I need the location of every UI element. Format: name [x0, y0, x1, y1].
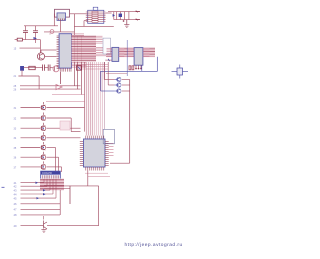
- MCU U2 left pins: [80, 141, 84, 165]
- wire below MCU: [85, 173, 110, 176]
- net flag VCC: [136, 11, 141, 13]
- wire x70 drop: [69, 186, 71, 204]
- net flag VDD: [136, 19, 141, 21]
- net label row y89.1: [14, 89, 81, 92]
- wire row5 right: [46, 148, 55, 173]
- svg-text:http://jeep.avtograd.ru: http://jeep.avtograd.ru: [125, 242, 183, 248]
- diode D6: [43, 193, 46, 195]
- IC U4 body: [134, 48, 143, 66]
- resistor R2: [29, 66, 35, 69]
- wire Q1 collector: [45, 55, 57, 57]
- transistor Q11: [14, 142, 46, 150]
- wire x98.6 down: [98, 186, 100, 226]
- wire RN1 right: [106, 12, 112, 14]
- wire Q outputs x129.7: [122, 80, 130, 164]
- wire Q1 top: [41, 50, 57, 53]
- transistor Q4: [115, 77, 121, 81]
- wire row1 right: [46, 107, 84, 109]
- wire horizontal y26.4: [74, 25, 113, 27]
- net label row 42: [14, 185, 48, 189]
- svg-text:45: 45: [14, 196, 17, 200]
- MCU U2 body: [84, 139, 106, 167]
- wire stub y60 blue tick: [105, 59, 112, 61]
- IC U1 bottom pins: [60, 68, 71, 72]
- wire loop U4 to transistors: [101, 57, 158, 91]
- svg-text:44: 44: [14, 192, 17, 196]
- wire y188.3: [44, 187, 70, 189]
- transistor Q10: [14, 132, 46, 140]
- wire power bottom: [114, 19, 140, 21]
- wire y64.5: [76, 64, 108, 66]
- bus wires to U3 U4: [106, 48, 155, 58]
- MCU U2 bottom pins: [86, 167, 104, 171]
- wire row end stubs: [44, 180, 56, 199]
- svg-text:47: 47: [14, 208, 17, 212]
- IC U4 right pins: [143, 48, 150, 56]
- wire K1 bottom drop: [59, 20, 61, 32]
- capacitor C1: [23, 26, 28, 40]
- wire K1 left drop: [53, 14, 55, 26]
- wire row2 right: [46, 118, 80, 132]
- wire x87 MCU drop: [87, 171, 89, 186]
- plus mark: [123, 20, 125, 22]
- wire vertical x40.4: [39, 40, 41, 53]
- net label row 46: [14, 202, 61, 206]
- transistor Q2 body: [21, 66, 24, 70]
- transistor Q13: [14, 161, 46, 169]
- wire row4 right: [46, 137, 80, 139]
- MCU right pin wires: [109, 143, 114, 155]
- wire x108 to Q5: [108, 62, 114, 85]
- relay K1 outer box: [55, 9, 70, 17]
- wire horizontal y31.9: [44, 31, 74, 33]
- wire y66.5: [76, 66, 108, 68]
- IC U3 left pins: [107, 48, 113, 56]
- svg-text:48: 48: [14, 213, 17, 217]
- capacitor C4: [48, 65, 53, 71]
- MCU U2 top pins: [86, 136, 104, 139]
- ground GND2: [41, 230, 46, 233]
- net label row 48: [14, 213, 61, 217]
- transistor Q14: [40, 216, 47, 229]
- wire vertical x74.4: [73, 14, 75, 36]
- net label row y48: [14, 48, 41, 51]
- resistor R1: [15, 38, 41, 41]
- transistor Q6: [115, 89, 121, 93]
- wire box outline U2 top right: [103, 129, 114, 143]
- crystal X1: [172, 65, 189, 79]
- capacitor C3: [43, 65, 48, 71]
- IC U4 left pins: [128, 48, 135, 56]
- wire Q2 drop: [14, 70, 40, 78]
- ground GND1: [124, 25, 129, 28]
- svg-text:42: 42: [14, 185, 17, 189]
- diode D5: [43, 189, 46, 192]
- IC U1 left pins: [57, 36, 60, 69]
- svg-text:CON-PR: CON-PR: [42, 172, 52, 175]
- net label left edge: [2, 186, 5, 188]
- wire vertical x39.1: [38, 76, 40, 89]
- wire x60 up: [59, 190, 61, 215]
- resistor network RN1: [86, 7, 106, 23]
- url text: [125, 242, 183, 248]
- svg-text:49: 49: [14, 224, 17, 228]
- net label row 41: [14, 181, 45, 185]
- svg-text:46: 46: [14, 202, 17, 206]
- IC U3 right pins: [119, 48, 125, 56]
- wire blue vertical x127: [126, 40, 128, 76]
- wire y101.4: [46, 100, 85, 102]
- transistor Q7: [14, 102, 46, 110]
- net label row 44: [14, 192, 54, 196]
- diode D4: [36, 182, 39, 185]
- bus wires U1 lower: [72, 63, 87, 68]
- wire vertical x84 RN1 left: [84, 21, 88, 27]
- wire y69: [76, 68, 108, 70]
- component box white: [103, 38, 111, 54]
- IC U4 bottom pins: [136, 65, 141, 69]
- transistor Q0: [50, 30, 54, 35]
- connector J2 pin drops: [43, 179, 59, 189]
- net label row 47: [14, 208, 61, 212]
- junction dots U4 pins: [135, 68, 142, 70]
- wire row6 right: [46, 157, 58, 172]
- MCU U2 right pins: [105, 141, 109, 165]
- net label row 49: [14, 224, 41, 228]
- connector J2: [41, 171, 61, 179]
- wire y67.7: [24, 67, 43, 69]
- svg-text:41: 41: [14, 181, 17, 185]
- wire from box to MCU right: [110, 162, 130, 164]
- transistor Q12: [14, 152, 46, 160]
- bus wires below J2: [40, 179, 64, 191]
- wire to ground: [126, 20, 128, 25]
- wire Q14 ground stub: [43, 228, 45, 230]
- diode D7: [37, 197, 40, 199]
- net label row 43: [14, 188, 51, 192]
- wire y94.5: [52, 94, 85, 96]
- amplifier triangle A1: [56, 85, 62, 90]
- transistor Q8: [14, 113, 46, 121]
- capacitor C2: [33, 26, 38, 43]
- wire verticals power: [114, 12, 129, 20]
- wire to Q6: [101, 90, 115, 92]
- wire row3 right: [46, 127, 80, 129]
- IC U3 body: [112, 47, 119, 61]
- transistor Q9: [14, 123, 46, 131]
- bus wires mid: [96, 47, 106, 56]
- svg-text:43: 43: [14, 188, 17, 192]
- transistor Q3: [53, 66, 59, 72]
- label box pink: [60, 121, 70, 130]
- vertical bus wires to U2: [74, 36, 104, 136]
- relay K1 inner body: [57, 13, 66, 21]
- wire y73.5: [106, 73, 127, 75]
- transistor Q5: [115, 83, 121, 87]
- diode D1: [34, 37, 37, 40]
- net label row 45: [14, 196, 57, 200]
- component small box: [77, 66, 82, 71]
- wire horizontal y25.8: [24, 25, 58, 27]
- IC U1 body: [59, 34, 71, 68]
- bus wires U1 right dense: [72, 34, 103, 62]
- wire long y185.9: [44, 185, 99, 187]
- diode D3: [119, 14, 122, 17]
- wire K1 right to RN1: [70, 13, 88, 15]
- net label row y85.8: [14, 85, 81, 88]
- wire power top: [108, 11, 140, 13]
- wire x104 to Q4: [104, 62, 114, 80]
- wire row7 right: [46, 167, 61, 172]
- wire row bottom right: [47, 225, 99, 227]
- transistor Q1: [37, 53, 44, 60]
- diode D2: [113, 14, 115, 17]
- resistors below U4: [129, 66, 134, 70]
- wire stub x60.5: [60, 72, 62, 84]
